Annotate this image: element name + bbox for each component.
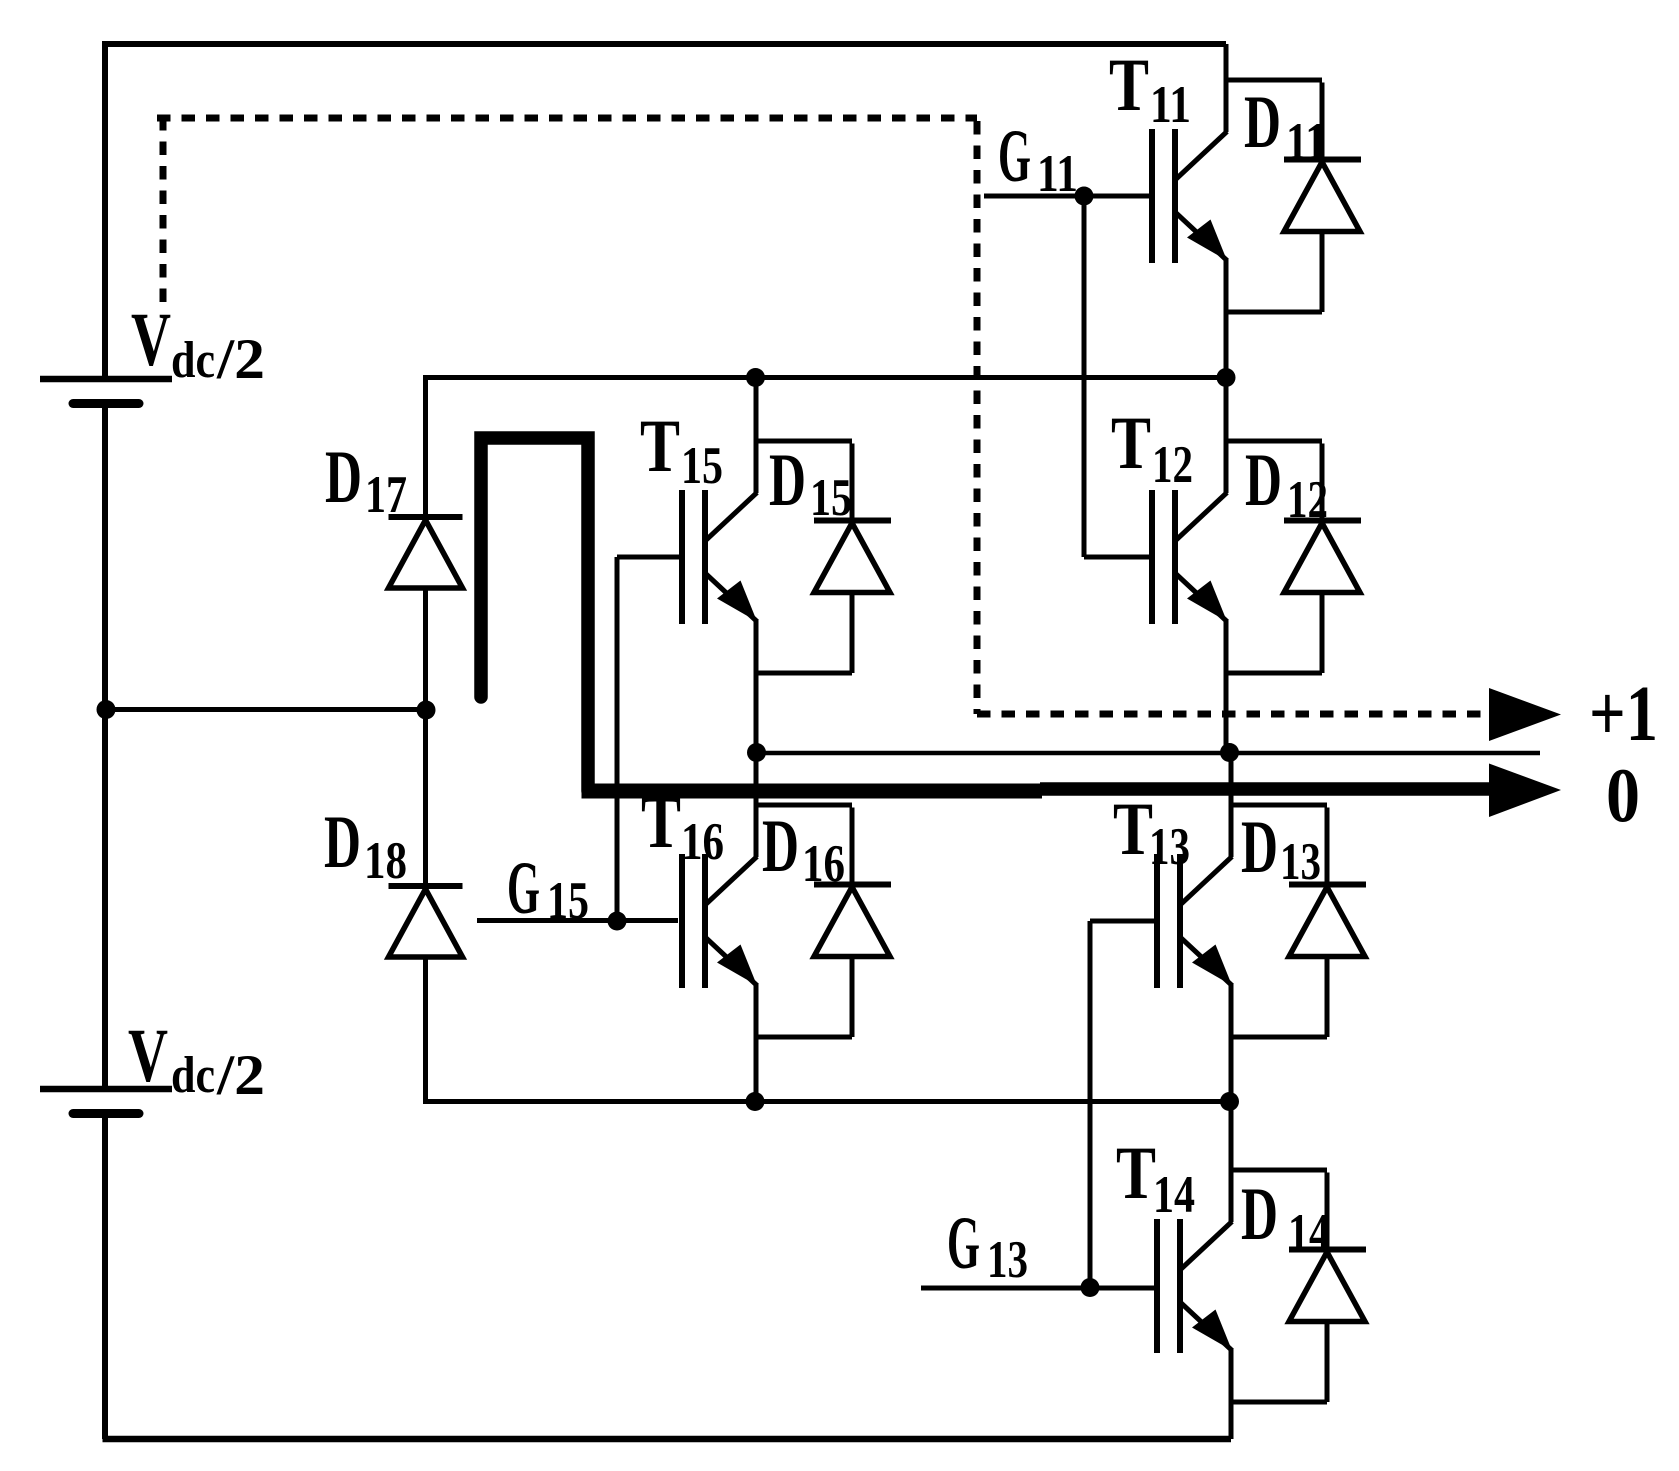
diode D18 (389, 886, 463, 957)
wire - G13 gate lead (921, 1286, 1157, 1291)
wire - G11 gate lead (984, 194, 1151, 199)
svg-text:D: D (1241, 806, 1278, 889)
svg-text:dc: dc (171, 332, 215, 389)
svg-text:13: 13 (1149, 818, 1190, 876)
wire - inner bottom bus (clamp bottom to T13/T14 midpoint) (423, 1099, 1231, 1104)
dashed path - top horizontal (157, 115, 977, 122)
diode D13 (freewheel) (1231, 805, 1366, 1037)
svg-text:D: D (762, 805, 799, 888)
label Vdc/2 upper (131, 298, 265, 391)
transistor T13 (IGBT) (1157, 753, 1232, 1102)
node P1 - inner top bus / T15 collector dot (746, 368, 765, 387)
node O2 - output rail / T12 emitter dot (1220, 743, 1239, 762)
diode D14 (freewheel) (1231, 1170, 1366, 1402)
svg-text:D: D (769, 439, 806, 522)
node N2 - inner bottom bus / T13 emitter dot (1220, 1092, 1239, 1111)
svg-text:D: D (1245, 439, 1282, 522)
transistor T15 (IGBT) (682, 378, 757, 752)
label D13 (1241, 806, 1321, 891)
svg-text:13: 13 (1280, 833, 1321, 891)
diode D17 (389, 517, 463, 588)
node M - battery midpoint junction dot (97, 700, 116, 719)
label +1 (1589, 671, 1658, 758)
battery V2 (Vdc/2 lower) (40, 1089, 172, 1114)
dashed path - bottom horizontal to +1 arrow (977, 711, 1489, 718)
svg-text:11: 11 (1286, 113, 1327, 171)
node G11 junction dot (1075, 187, 1094, 206)
svg-text:/2: /2 (216, 1044, 265, 1107)
svg-text:17: 17 (365, 466, 407, 524)
svg-text:G: G (998, 115, 1031, 198)
svg-text:G: G (947, 1202, 980, 1285)
label G15 (507, 847, 589, 930)
svg-text:D: D (1244, 81, 1281, 164)
label T11 (1109, 44, 1191, 134)
label T14 (1116, 1132, 1195, 1224)
transistor T14 (IGBT) (1157, 1102, 1232, 1440)
wire - thin output line (0-node rail) (755, 751, 1540, 756)
label D18 (324, 801, 407, 890)
label T16 (641, 781, 724, 871)
svg-text:11: 11 (1037, 145, 1078, 203)
label D15 (769, 439, 852, 527)
diode D15 (freewheel) (756, 441, 891, 673)
wire - G15 gate lead (477, 918, 678, 923)
svg-text:T: T (1113, 788, 1153, 871)
wire - gate bus T13-T14 (1088, 921, 1093, 1288)
wire - gate bus T11-T12 (1082, 196, 1087, 557)
node P2 - inner top bus / T12 collector dot (1217, 368, 1236, 387)
label 0 (1606, 752, 1640, 838)
node N1 - inner bottom bus / T16 emitter dot (746, 1092, 765, 1111)
dashed path - right vertical (974, 121, 981, 714)
transistor T11 (IGBT) (1152, 44, 1227, 378)
svg-text:G: G (507, 847, 540, 930)
node G15 junction dot (608, 912, 627, 931)
arrow +1 (dashed path arrowhead) (1489, 688, 1561, 741)
label G11 (998, 115, 1078, 203)
label Vdc/2 lower (128, 1014, 265, 1107)
svg-text:12: 12 (1287, 471, 1328, 529)
wire - left bus middle segment (102, 406, 108, 1086)
transistor T12 (IGBT) (1152, 378, 1227, 752)
svg-text:12: 12 (1152, 436, 1193, 494)
label T13 (1113, 788, 1190, 876)
diode D11 (freewheel) (1226, 80, 1361, 312)
svg-text:D: D (1241, 1173, 1278, 1256)
dashed path - left vertical stub (160, 117, 167, 311)
wire - midpoint horizontal to clamp node (105, 707, 426, 712)
svg-text:D: D (324, 801, 361, 884)
svg-text:16: 16 (802, 835, 845, 893)
thick 0 path (bold commutation path) (481, 438, 1489, 791)
transistor T16 (IGBT) (682, 752, 757, 1102)
wire - T15 gate lead (617, 555, 680, 560)
wire - left bus lower segment (102, 1116, 108, 1439)
label G13 (947, 1202, 1028, 1289)
label D11 (1244, 81, 1327, 171)
svg-text:T: T (640, 405, 680, 488)
svg-text:T: T (1109, 44, 1149, 127)
wire - T13 gate lead (1090, 919, 1156, 924)
node - clamp midpoint junction dot (417, 701, 436, 720)
svg-text:14: 14 (1288, 1204, 1330, 1262)
label D16 (762, 805, 845, 893)
label D17 (325, 436, 407, 524)
svg-text:T: T (1116, 1132, 1156, 1215)
svg-text:dc: dc (171, 1047, 215, 1104)
wire - top bus from Vdc+ to T11 collector (103, 41, 1227, 47)
svg-text:15: 15 (547, 872, 589, 930)
label T15 (640, 405, 723, 495)
svg-text:16: 16 (681, 813, 724, 871)
svg-text:0: 0 (1606, 752, 1640, 838)
svg-text:V: V (128, 1014, 168, 1098)
svg-text:13: 13 (987, 1231, 1028, 1289)
node G13 junction dot (1081, 1278, 1100, 1297)
svg-text:T: T (1111, 402, 1151, 485)
svg-text:+1: +1 (1589, 671, 1658, 758)
label D14 (1241, 1173, 1330, 1262)
diode D16 (freewheel) (756, 805, 891, 1037)
arrow 0 (thick path arrowhead) (1489, 764, 1561, 818)
wire - clamp branch vertical between D17 and D18 (423, 588, 428, 885)
wire - clamp branch vertical below D18 (423, 957, 428, 1102)
svg-text:18: 18 (364, 832, 407, 890)
svg-text:/2: /2 (216, 328, 265, 391)
svg-text:11: 11 (1150, 76, 1191, 134)
svg-text:T: T (641, 781, 681, 864)
wire - clamp branch vertical upper (above D17) (423, 375, 428, 516)
wire - T12 gate lead (1084, 555, 1151, 560)
wire - bottom bus to T14 emitter (103, 1436, 1232, 1443)
wire - left bus upper segment (battery V1 +) (102, 41, 108, 377)
svg-text:14: 14 (1153, 1166, 1195, 1224)
svg-text:15: 15 (810, 469, 852, 527)
wire - inner top bus (clamp top to T11/T12 midpoint) (425, 375, 1226, 380)
svg-text:V: V (131, 298, 171, 382)
label D12 (1245, 439, 1328, 529)
svg-text:15: 15 (681, 437, 723, 495)
wire - gate bus T15-T16 (615, 557, 620, 921)
label T12 (1111, 402, 1193, 494)
diode D12 (freewheel) (1226, 441, 1361, 673)
svg-text:D: D (325, 436, 362, 519)
node O1 - output rail / T15 emitter dot (747, 743, 766, 762)
battery V1 (Vdc/2 upper) (40, 379, 172, 404)
